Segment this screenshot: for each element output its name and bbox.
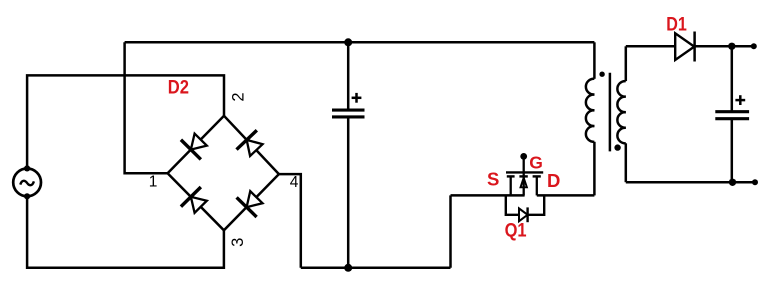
bridge diode top-right (node2-node4) [237, 130, 267, 159]
V1 bottom terminal dot [24, 193, 30, 199]
Q1 gate bar [506, 171, 543, 173]
capacitor C2 plates [715, 112, 749, 119]
junction node output - / C2 [729, 179, 736, 186]
Q1 source leg [510, 176, 512, 195]
capacitor C2 plus sign [735, 95, 745, 105]
transformer T1 primary winding [586, 42, 595, 195]
svg-text:D2: D2 [168, 76, 189, 98]
junction node top rail / C1 [344, 38, 352, 46]
wire left riser from top rail to node 1 [125, 42, 168, 173]
wire secondary bottom to output - [626, 181, 755, 184]
bridge diode bottom-left (node1-node3) [181, 187, 211, 217]
junction node output + / C2 [728, 43, 735, 50]
transformer T1 core [609, 73, 612, 152]
output + terminal dot [751, 43, 757, 49]
svg-text:3: 3 [229, 238, 247, 247]
Q1 body/gate vertical [523, 156, 525, 195]
output - terminal dot [752, 179, 758, 185]
wire AC top to node 2 [27, 75, 224, 168]
Q1 drain leg [536, 176, 538, 195]
capacitor C1 plus sign [352, 93, 362, 103]
wire capacitor C1 top lead [347, 42, 350, 109]
Q1 body diode loop wire [506, 195, 544, 214]
bridge diode top-left (node1-node2) [181, 130, 211, 160]
svg-text:S: S [487, 168, 499, 189]
svg-text:Q1: Q1 [505, 220, 527, 241]
wire node 4 to bottom rail [279, 174, 301, 268]
wire AC bottom to node 3 [27, 196, 224, 267]
Q1 gate terminal dot [520, 153, 527, 160]
wire source riser [449, 195, 452, 267]
wire secondary top to D1 [626, 45, 675, 48]
wire capacitor C1 bottom lead [347, 118, 350, 268]
svg-text:D1: D1 [666, 14, 687, 35]
svg-text:4: 4 [290, 174, 299, 191]
wire capacitor C2 bottom lead [731, 120, 734, 183]
wire Q1 drain to transformer [537, 194, 595, 197]
V1 top terminal dot [24, 165, 30, 171]
junction node bottom rail / C1 [344, 264, 352, 272]
transformer T1 secondary phase dot [614, 144, 620, 150]
svg-text:D: D [547, 170, 560, 191]
Q1 body arrow [521, 178, 527, 188]
wire D1 cathode to output + [694, 45, 753, 48]
Q1 channel segments [507, 175, 515, 177]
svg-text:2: 2 [229, 92, 247, 101]
svg-text:1: 1 [149, 173, 158, 190]
wire top rail [125, 41, 595, 44]
bridge diode bottom-right (node3-node4) [237, 187, 267, 217]
transformer T1 secondary winding [617, 46, 625, 182]
bridge diamond wires D2 [168, 116, 279, 231]
Q1 body diode [519, 207, 528, 222]
wire source to Q1 [451, 194, 525, 197]
transformer T1 primary phase dot [599, 72, 604, 77]
wire bottom rail right [301, 267, 451, 270]
svg-text:G: G [529, 153, 543, 173]
wire capacitor C2 top lead [731, 46, 734, 110]
MOSFET Q1 [506, 156, 543, 195]
V1 sine symbol [20, 181, 34, 185]
diode D1 [675, 32, 694, 62]
AC source V1 [13, 165, 41, 199]
capacitor C1 plates [332, 110, 365, 117]
